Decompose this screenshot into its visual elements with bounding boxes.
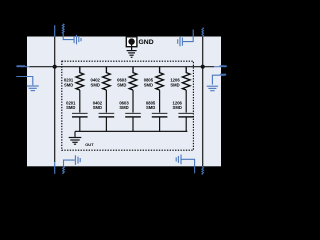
wire right rail off-sheet top squiggle xyxy=(202,28,204,37)
svg-text:OUT: OUT xyxy=(85,142,94,147)
resistor R5 1206 xyxy=(182,67,190,90)
wire left rail off-sheet bottom xyxy=(54,162,56,174)
capacitor C3 0603 xyxy=(125,113,141,117)
dashed boundary box xyxy=(62,61,194,150)
capacitor C4 0805 xyxy=(152,113,168,117)
wire R4 to C4 xyxy=(159,90,161,113)
svg-text:SMD: SMD xyxy=(66,105,75,110)
wire bottom OUT bus xyxy=(75,130,187,132)
wire C2 to OUT bus xyxy=(105,117,107,131)
node junction left on bus xyxy=(53,65,57,69)
svg-text:SMD: SMD xyxy=(170,83,179,88)
svg-text:SMD: SMD xyxy=(173,105,182,110)
wire R1 to C1 xyxy=(79,90,81,113)
ground symbol right (blue) xyxy=(207,74,226,90)
capacitor C2 0402 xyxy=(99,113,115,117)
capacitor top-left corner (blue) xyxy=(62,24,81,45)
wire R3 to C3 xyxy=(132,90,134,113)
svg-text:SMD: SMD xyxy=(146,105,155,110)
svg-text:SMD: SMD xyxy=(144,83,153,88)
capacitor C5 1206 xyxy=(178,113,194,117)
wire bus off-sheet squiggle left xyxy=(17,65,31,68)
wire C5 to OUT bus xyxy=(185,117,187,131)
wire C4 to OUT bus xyxy=(159,117,161,131)
resistor R2 0402 xyxy=(103,67,111,90)
ground symbol left (blue) xyxy=(16,77,39,91)
wire right rail off-sheet bottom squiggle xyxy=(202,166,204,174)
svg-text:GND: GND xyxy=(139,39,154,46)
wire right vertical rail xyxy=(202,37,204,167)
resistor R4 0805 xyxy=(156,67,164,90)
wire C3 to OUT bus xyxy=(132,117,134,131)
capacitor top-right corner (blue) xyxy=(178,30,194,47)
capacitor bottom-right corner (blue) xyxy=(176,155,194,174)
wire R5 to C5 xyxy=(185,90,187,113)
capacitor bottom-left corner (blue) xyxy=(63,155,81,174)
wire left rail off-sheet top xyxy=(54,25,56,36)
svg-text:SMD: SMD xyxy=(119,105,128,110)
node junction right on bus xyxy=(201,65,205,69)
wire bus off-sheet squiggle right xyxy=(214,65,227,68)
ground symbol on OUT bus xyxy=(69,131,82,144)
svg-text:SMD: SMD xyxy=(117,83,126,88)
power port GND (box + circle) xyxy=(126,37,137,58)
sheet xyxy=(27,37,221,167)
wire R2 to C2 xyxy=(105,90,107,113)
svg-text:SMD: SMD xyxy=(91,83,100,88)
wire C1 to OUT bus xyxy=(79,117,81,131)
resistor R1 0201 xyxy=(76,67,84,90)
wire top GND bus xyxy=(29,66,214,68)
capacitor C1 0201 xyxy=(72,113,88,117)
wire left vertical rail xyxy=(54,37,56,163)
resistor R3 0603 xyxy=(129,67,137,90)
svg-text:SMD: SMD xyxy=(93,105,102,110)
svg-text:SMD: SMD xyxy=(64,83,73,88)
